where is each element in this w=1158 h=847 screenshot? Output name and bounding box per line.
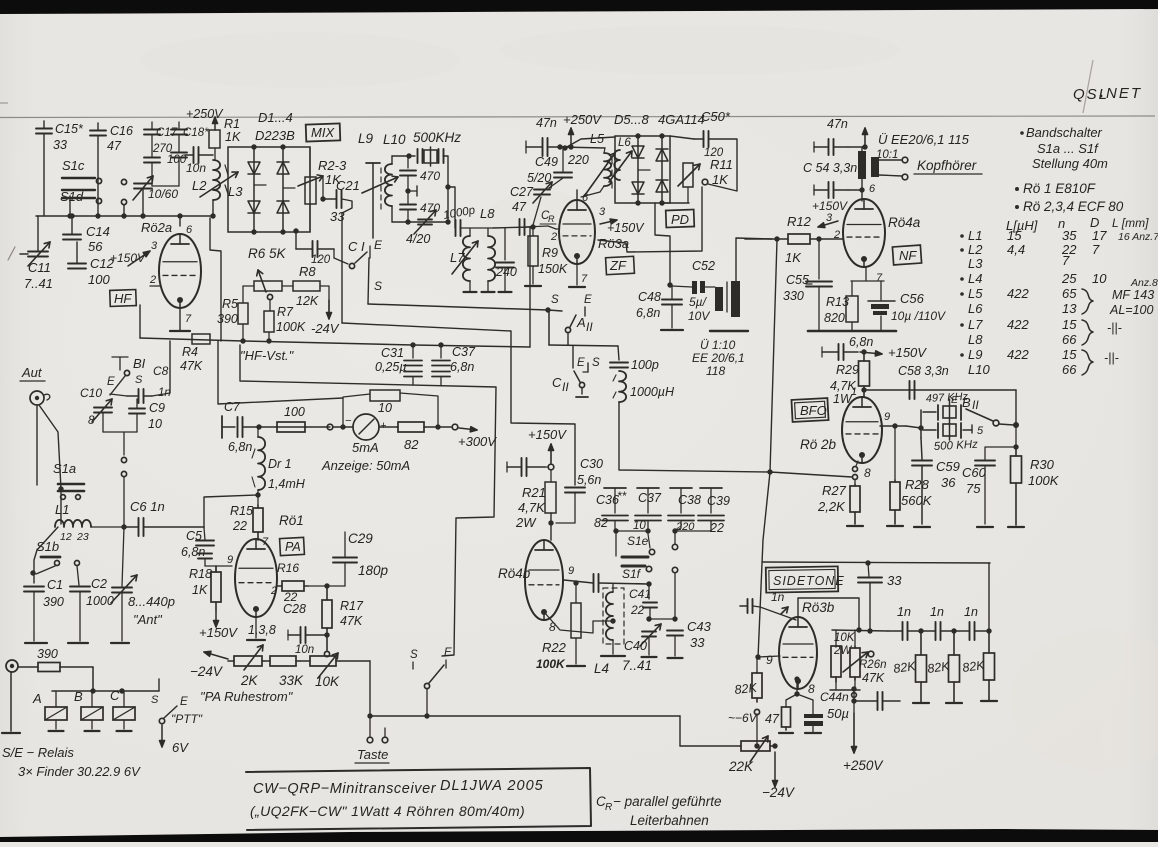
svg-text:R22: R22 [542,640,567,655]
svg-text:L [mm]: L [mm] [1112,216,1149,230]
svg-text:10K: 10K [834,632,856,644]
svg-text:7: 7 [1062,253,1070,268]
svg-text:23: 23 [76,531,89,543]
svg-text:E: E [180,696,188,708]
svg-text:180p: 180p [358,563,389,578]
svg-text:"PA Ruhestrom": "PA Ruhestrom" [200,689,294,704]
svg-text:C I: C I [348,239,365,254]
svg-text:6,8n: 6,8n [181,545,205,559]
svg-text:13: 13 [1062,301,1077,316]
svg-text:10: 10 [148,417,162,431]
svg-text:100p: 100p [631,358,659,372]
svg-text:C10: C10 [80,386,102,400]
svg-text:66: 66 [1062,362,1077,377]
svg-text:10K: 10K [315,674,340,689]
svg-text:HF: HF [114,291,132,306]
svg-text:S: S [551,294,559,306]
svg-text:S: S [374,279,382,293]
svg-text:100K: 100K [276,320,306,334]
svg-text:C14: C14 [86,224,110,239]
svg-text:L7: L7 [450,250,465,265]
svg-text:-||-: -||- [1104,351,1119,365]
svg-text:6: 6 [186,224,193,236]
svg-text:C2: C2 [91,577,107,591]
svg-text:R: R [605,802,612,813]
svg-text:BFO: BFO [800,403,827,418]
svg-text:390: 390 [37,647,58,661]
svg-text:A: A [32,691,42,706]
svg-text:8...440p: 8...440p [128,594,175,609]
svg-text:15: 15 [1062,347,1077,362]
svg-text:R21: R21 [522,485,546,500]
svg-text:C: C [552,375,562,390]
svg-text:6,8n: 6,8n [228,440,252,454]
svg-text:+150V: +150V [888,345,927,360]
svg-text:470: 470 [420,201,440,215]
svg-text:R28: R28 [905,477,930,492]
svg-text:+250V: +250V [563,112,602,127]
svg-text:10: 10 [633,520,646,532]
svg-text:L9: L9 [968,347,982,362]
svg-text:7..41: 7..41 [24,276,53,291]
svg-text:10: 10 [1092,271,1107,286]
svg-text:L8: L8 [968,332,983,347]
svg-text:Rö4b: Rö4b [498,566,531,581]
svg-text:7..41: 7..41 [622,658,652,673]
svg-text:R16: R16 [277,561,299,575]
svg-text:C37: C37 [452,345,476,359]
svg-text:B: B [74,689,83,704]
svg-text:6: 6 [869,183,876,195]
svg-text:S1a: S1a [53,461,76,476]
svg-text:D223B: D223B [255,128,295,143]
svg-text:4,4: 4,4 [1007,242,1025,257]
svg-text:33: 33 [887,573,902,588]
svg-text:EE 20/6,1: EE 20/6,1 [692,351,745,365]
svg-text:MIX: MIX [311,125,335,140]
svg-text:1n: 1n [964,605,978,619]
svg-text:9: 9 [884,411,890,423]
svg-text:C38: C38 [678,493,701,507]
svg-text:R7: R7 [277,305,294,319]
svg-text:L3: L3 [968,256,983,271]
svg-text:S1d: S1d [60,189,84,204]
svg-text:1000: 1000 [86,594,114,608]
svg-text:8: 8 [88,415,95,427]
svg-text:L5: L5 [968,286,983,301]
svg-text:47n: 47n [827,117,848,131]
svg-text:D1...4: D1...4 [258,110,293,125]
svg-text:56: 56 [88,239,103,254]
svg-text:L1: L1 [55,502,69,517]
svg-text:47n: 47n [536,116,557,130]
svg-text:C44n: C44n [820,690,849,704]
svg-text:C16: C16 [110,124,133,138]
svg-text:C7: C7 [224,400,241,414]
svg-text:C31: C31 [381,346,404,360]
svg-text:820: 820 [824,311,845,325]
svg-text:15: 15 [1007,228,1022,243]
svg-text:E: E [577,357,585,369]
svg-text:560K: 560K [901,493,933,508]
svg-text:+150V: +150V [607,221,645,235]
svg-text:Leiterbahnen: Leiterbahnen [630,813,709,828]
svg-text:12: 12 [60,531,72,543]
svg-text:22: 22 [630,603,645,617]
svg-text:S1c: S1c [62,158,85,173]
svg-text:0,25µ: 0,25µ [375,360,407,374]
svg-text:CW−QRP−Minitransceiver: CW−QRP−Minitransceiver [253,781,437,797]
svg-text:8: 8 [864,466,871,480]
svg-text:6,8n: 6,8n [636,306,660,320]
svg-text:C29: C29 [348,531,373,546]
svg-text:Stellung 40m: Stellung 40m [1032,156,1108,171]
svg-text:5,6n: 5,6n [577,473,601,487]
svg-text:1,4mH: 1,4mH [268,477,306,491]
svg-text:C27: C27 [510,185,534,199]
svg-text:E: E [107,376,115,388]
svg-text:-||-: -||- [1107,321,1122,335]
svg-text:47K: 47K [340,614,363,628]
svg-text:422: 422 [1007,286,1029,301]
svg-text:9: 9 [568,565,574,577]
svg-text:Kopfhörer: Kopfhörer [917,158,977,173]
svg-text:L9: L9 [358,131,374,146]
svg-text:2: 2 [550,231,557,243]
svg-text:4,7K: 4,7K [518,500,546,515]
svg-text:R4: R4 [182,345,198,359]
svg-text:C55: C55 [786,273,809,287]
svg-text:C59: C59 [936,459,960,474]
svg-text:1n: 1n [897,605,911,619]
svg-text:R26n: R26n [859,659,887,671]
svg-text:10/60: 10/60 [148,187,178,201]
svg-text:422: 422 [1007,347,1029,362]
svg-text:1K: 1K [712,172,729,187]
svg-text:100K: 100K [536,657,566,671]
svg-text:II: II [562,380,569,394]
svg-text:C56: C56 [900,291,925,306]
svg-text:9: 9 [766,653,773,667]
svg-text:L4: L4 [968,271,982,286]
svg-text:DL1JWA 2005: DL1JWA 2005 [440,778,544,794]
svg-text:+250V: +250V [186,107,224,121]
svg-text:PD: PD [671,212,689,227]
svg-text:R13: R13 [826,295,849,309]
svg-text:100: 100 [167,154,187,166]
svg-text:6,8n: 6,8n [450,360,474,374]
svg-text:-24V: -24V [311,321,340,336]
svg-text:Ü EE20/6,1 115: Ü EE20/6,1 115 [878,132,970,147]
svg-text:II: II [972,398,979,412]
svg-text:L5: L5 [590,132,604,146]
svg-text:QSL: QSL [1073,86,1109,103]
svg-text:47: 47 [765,712,780,726]
svg-text:5µ/: 5µ/ [689,295,708,309]
svg-text:9: 9 [227,554,233,566]
svg-text:S: S [135,374,143,386]
svg-text:82K: 82K [734,681,758,697]
svg-text:47: 47 [107,139,122,153]
svg-text:+150V: +150V [812,199,848,213]
svg-text:L6: L6 [968,301,983,316]
svg-text:1n: 1n [771,590,785,604]
svg-text:7: 7 [876,272,883,284]
svg-text:S1e: S1e [627,534,649,548]
svg-text:Rö 2,3,4 ECF 80: Rö 2,3,4 ECF 80 [1023,199,1124,214]
svg-text:500KHz: 500KHz [413,130,461,145]
svg-text:E: E [584,294,592,306]
svg-text:C28: C28 [283,602,306,616]
svg-text:PA: PA [285,540,301,554]
svg-text:SIDETONE: SIDETONE [773,574,845,588]
svg-text:R29: R29 [836,363,859,377]
svg-text:R: R [548,214,555,224]
svg-text:82: 82 [404,437,419,452]
svg-text:Aut: Aut [21,365,43,380]
svg-text:22K: 22K [728,759,754,774]
svg-text:C58 3,3n: C58 3,3n [898,364,949,378]
svg-text:4/20: 4/20 [406,232,430,246]
svg-text:2,2K: 2,2K [817,499,846,514]
svg-text:1: 1 [851,386,857,398]
svg-text:C37: C37 [638,491,662,505]
svg-text:C41: C41 [629,587,651,601]
svg-text:~−6V: ~−6V [728,711,758,725]
svg-text:10V: 10V [688,309,710,323]
svg-text:L10: L10 [383,132,406,147]
svg-text:35: 35 [1062,228,1077,243]
svg-text:Rö3b: Rö3b [802,600,835,615]
svg-text:47K: 47K [180,359,203,373]
svg-text:C15*: C15* [55,122,84,136]
svg-text:10µ /110V: 10µ /110V [891,309,946,323]
svg-text:6V: 6V [172,740,189,755]
svg-text:C39: C39 [707,494,730,508]
svg-text:"Ant": "Ant" [133,612,163,627]
svg-text:NF: NF [899,248,917,263]
svg-text:2: 2 [270,585,277,597]
svg-text:6: 6 [582,192,589,204]
svg-text:R8: R8 [299,264,316,279]
svg-text:1,3,8: 1,3,8 [248,623,276,637]
svg-text:10:1: 10:1 [876,149,898,161]
svg-text:390: 390 [217,312,238,326]
svg-text:R17: R17 [340,599,364,613]
svg-text:33: 33 [53,138,67,152]
svg-text:Dr 1: Dr 1 [268,457,292,471]
svg-text:Ü 1:10: Ü 1:10 [700,338,736,352]
svg-text:S1f: S1f [622,567,642,581]
svg-text:L8: L8 [480,206,495,221]
svg-text:C48: C48 [638,290,661,304]
svg-text:220: 220 [567,153,589,167]
svg-text:S: S [151,694,159,706]
svg-text:C: C [110,688,120,703]
svg-text:Rö1: Rö1 [279,513,304,528]
svg-text:C50*: C50* [701,109,731,124]
svg-text:B: B [962,395,971,410]
svg-text:3: 3 [599,206,606,218]
svg-text:C11: C11 [28,260,51,275]
svg-text:33: 33 [690,635,705,650]
svg-text:+150V: +150V [528,427,567,442]
svg-text:7: 7 [185,313,192,325]
svg-text:50µ: 50µ [827,706,849,721]
svg-text:Rö 1 E810F: Rö 1 E810F [1023,181,1096,196]
svg-text:R6 5K: R6 5K [248,246,287,261]
svg-text:65: 65 [1062,286,1077,301]
svg-text:100: 100 [284,405,305,419]
svg-text:1n: 1n [930,605,944,619]
svg-text:150K: 150K [538,262,568,276]
svg-text:8: 8 [808,682,815,696]
svg-text:L10: L10 [968,362,990,377]
svg-text:−: − [345,415,352,427]
svg-text:12K: 12K [296,294,319,308]
svg-text:− parallel geführte: − parallel geführte [613,794,721,809]
svg-text:500 KHz: 500 KHz [934,439,979,453]
svg-text:C6 1n: C6 1n [130,499,165,514]
svg-text:−24V: −24V [762,785,796,800]
svg-text:R2-3: R2-3 [318,158,347,173]
svg-text:7: 7 [581,273,588,285]
svg-text:−24V: −24V [190,664,224,679]
svg-text:75: 75 [966,481,981,496]
svg-text:25: 25 [1061,271,1077,286]
svg-text:47: 47 [512,200,527,214]
svg-text:**: ** [617,489,627,503]
svg-text:47K: 47K [862,671,885,685]
svg-text:Anzeige: 50mA: Anzeige: 50mA [321,458,410,473]
svg-text:L3: L3 [228,184,243,199]
svg-text:1K: 1K [225,130,241,144]
svg-text:L6: L6 [618,137,631,149]
svg-text:422: 422 [1007,317,1029,332]
svg-text:R11: R11 [710,157,733,172]
svg-text:E: E [374,238,383,252]
svg-text:15: 15 [1062,317,1077,332]
svg-text:17: 17 [1092,228,1107,243]
svg-text:2W: 2W [515,515,537,530]
svg-text:5mA: 5mA [352,440,379,455]
svg-text:33: 33 [330,209,345,224]
svg-text:100K: 100K [1028,473,1060,488]
svg-text:L2: L2 [192,178,207,193]
svg-text:+150V: +150V [199,625,238,640]
svg-text:66: 66 [1062,332,1077,347]
svg-text:E: E [444,647,452,659]
svg-text:L4: L4 [594,661,609,676]
svg-text:C9: C9 [149,401,165,415]
svg-text:3× Finder 30.22.9 6V: 3× Finder 30.22.9 6V [18,764,141,779]
svg-text:4GA114: 4GA114 [658,112,705,127]
svg-text:Rö 2b: Rö 2b [800,437,837,452]
svg-text:390: 390 [43,595,64,609]
svg-text:5: 5 [977,425,984,437]
svg-text:C43: C43 [687,619,712,634]
svg-text:+: + [380,420,387,432]
svg-text:82: 82 [594,516,608,530]
svg-text:Taste: Taste [357,747,388,762]
svg-text:470: 470 [420,169,440,183]
svg-text:R9: R9 [542,246,558,260]
svg-text:7: 7 [1092,242,1100,257]
svg-text:S/E − Relais: S/E − Relais [2,745,74,760]
svg-text:Bandschalter: Bandschalter [1026,125,1103,140]
svg-text:10n: 10n [295,644,314,656]
svg-text:3: 3 [151,240,158,252]
svg-text:R27: R27 [822,483,847,498]
svg-text:10: 10 [378,401,392,415]
svg-text:C52: C52 [692,259,715,273]
svg-text:C17: C17 [156,127,178,139]
svg-text:C 54 3,3n: C 54 3,3n [803,161,857,175]
svg-text:C40: C40 [624,639,647,653]
svg-text:R5: R5 [222,297,238,311]
svg-text:S1a ... S1f: S1a ... S1f [1037,141,1099,156]
svg-text:5/20: 5/20 [527,171,551,185]
svg-text:II: II [586,320,593,334]
svg-text:C8: C8 [153,364,169,378]
svg-text:1K: 1K [785,250,802,265]
svg-text:R12: R12 [787,214,812,229]
svg-text:2K: 2K [240,673,259,688]
svg-text:C18*: C18* [183,127,209,139]
svg-text:33K: 33K [279,673,304,688]
svg-text:L7: L7 [968,317,983,332]
svg-text:36: 36 [941,475,956,490]
svg-text:2: 2 [149,274,156,286]
svg-text:AL=100: AL=100 [1109,303,1153,317]
svg-text:C36: C36 [596,493,619,507]
svg-text:A: A [576,315,586,330]
svg-text:D5...8: D5...8 [614,112,649,127]
svg-text:+300V: +300V [458,434,497,449]
svg-text:6,8n: 6,8n [849,335,873,349]
svg-text:C30: C30 [580,457,603,471]
svg-text:100: 100 [88,272,110,287]
svg-text:"HF-Vst.": "HF-Vst." [240,348,295,363]
svg-text:C21: C21 [336,178,360,193]
svg-text:330: 330 [783,289,804,303]
svg-text:L1: L1 [968,228,982,243]
svg-text:1000µH: 1000µH [630,385,675,399]
svg-text:16 Anz.72: 16 Anz.72 [1118,231,1158,243]
svg-text:(„UQ2FK−CW" 1Watt 4 Röhren: („UQ2FK−CW" 1Watt 4 Röhren 80m/40m) [250,803,525,819]
svg-text:C49: C49 [535,155,558,169]
svg-text:Rö4a: Rö4a [888,215,921,230]
svg-text:E: E [951,394,959,406]
svg-text:"PTT": "PTT" [171,712,203,726]
svg-text:BI: BI [133,356,146,371]
svg-text:R30: R30 [1030,457,1055,472]
svg-text:22: 22 [232,519,247,533]
svg-text:MF 143: MF 143 [1112,288,1154,302]
svg-text:118: 118 [706,364,725,378]
svg-text:R1: R1 [224,117,240,131]
svg-text:C60: C60 [962,465,987,480]
svg-text:R18: R18 [189,567,212,581]
svg-text:10n: 10n [186,161,206,175]
svg-text:1K: 1K [192,583,208,597]
svg-text:+250V: +250V [843,758,884,773]
svg-text:Rö2a: Rö2a [141,220,172,235]
svg-text:NET: NET [1106,85,1142,102]
svg-text:R15: R15 [230,504,253,518]
svg-text:S: S [592,357,600,369]
svg-text:ZF: ZF [609,258,627,273]
